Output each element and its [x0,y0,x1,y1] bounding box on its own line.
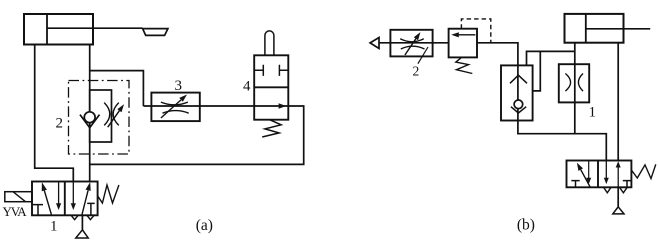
svg-text:2: 2 [56,115,64,131]
svg-text:2: 2 [413,63,420,78]
svg-text:(b): (b) [517,216,535,233]
svg-text:4: 4 [243,78,251,94]
svg-text:(a): (a) [196,217,213,234]
svg-text:YVA: YVA [3,204,28,219]
svg-text:3: 3 [174,78,182,94]
svg-text:1: 1 [50,218,58,234]
svg-text:1: 1 [588,104,596,120]
